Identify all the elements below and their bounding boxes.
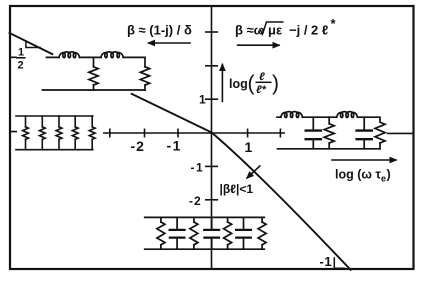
svg-text:|βℓ|<1: |βℓ|<1 — [220, 182, 254, 196]
svg-text:): ) — [272, 72, 279, 95]
svg-text:-1: -1 — [191, 161, 205, 175]
svg-text:-1: -1 — [320, 254, 333, 269]
svg-text:(: ( — [248, 72, 255, 95]
svg-text:log (ω τ: log (ω τ — [335, 168, 381, 182]
svg-text:ℓ*: ℓ* — [256, 84, 267, 96]
svg-text:1: 1 — [245, 139, 253, 155]
svg-text:): ) — [387, 168, 391, 182]
svg-text:με: με — [268, 23, 282, 38]
svg-text:-1: -1 — [167, 138, 182, 154]
svg-text:-2: -2 — [189, 194, 202, 208]
svg-text:1: 1 — [18, 47, 24, 59]
svg-text:log: log — [229, 77, 248, 91]
svg-text:−j / 2 ℓ: −j / 2 ℓ — [289, 23, 328, 38]
svg-text:β ≈ (1-j) / δ: β ≈ (1-j) / δ — [127, 23, 192, 38]
svg-text:-2: -2 — [131, 138, 145, 154]
svg-text:e: e — [381, 174, 386, 184]
svg-text:1: 1 — [199, 93, 206, 107]
svg-text:ℓ: ℓ — [259, 71, 265, 83]
svg-text:2: 2 — [18, 60, 24, 72]
